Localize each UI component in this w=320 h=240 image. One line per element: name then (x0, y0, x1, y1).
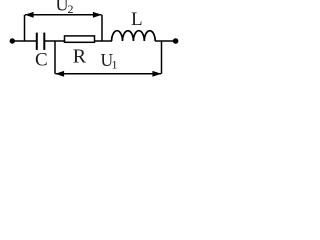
inductor L (112, 31, 156, 41)
right terminal (173, 38, 179, 44)
wire inductor to right terminal (155, 40, 175, 42)
voltage arrow U1 (55, 41, 162, 77)
resistor R (65, 36, 95, 42)
svg-text:R: R (73, 45, 87, 67)
wire left terminal to capacitor (12, 40, 36, 42)
svg-text:U1: U1 (101, 50, 118, 72)
capacitor C (37, 33, 45, 50)
svg-text:C: C (35, 50, 48, 71)
wire capacitor to resistor (45, 40, 65, 42)
svg-text:U2: U2 (56, 0, 74, 16)
svg-text:L: L (131, 9, 143, 30)
voltage arrow U2 (25, 12, 103, 41)
left terminal (10, 38, 15, 43)
wire resistor to inductor (95, 40, 113, 42)
